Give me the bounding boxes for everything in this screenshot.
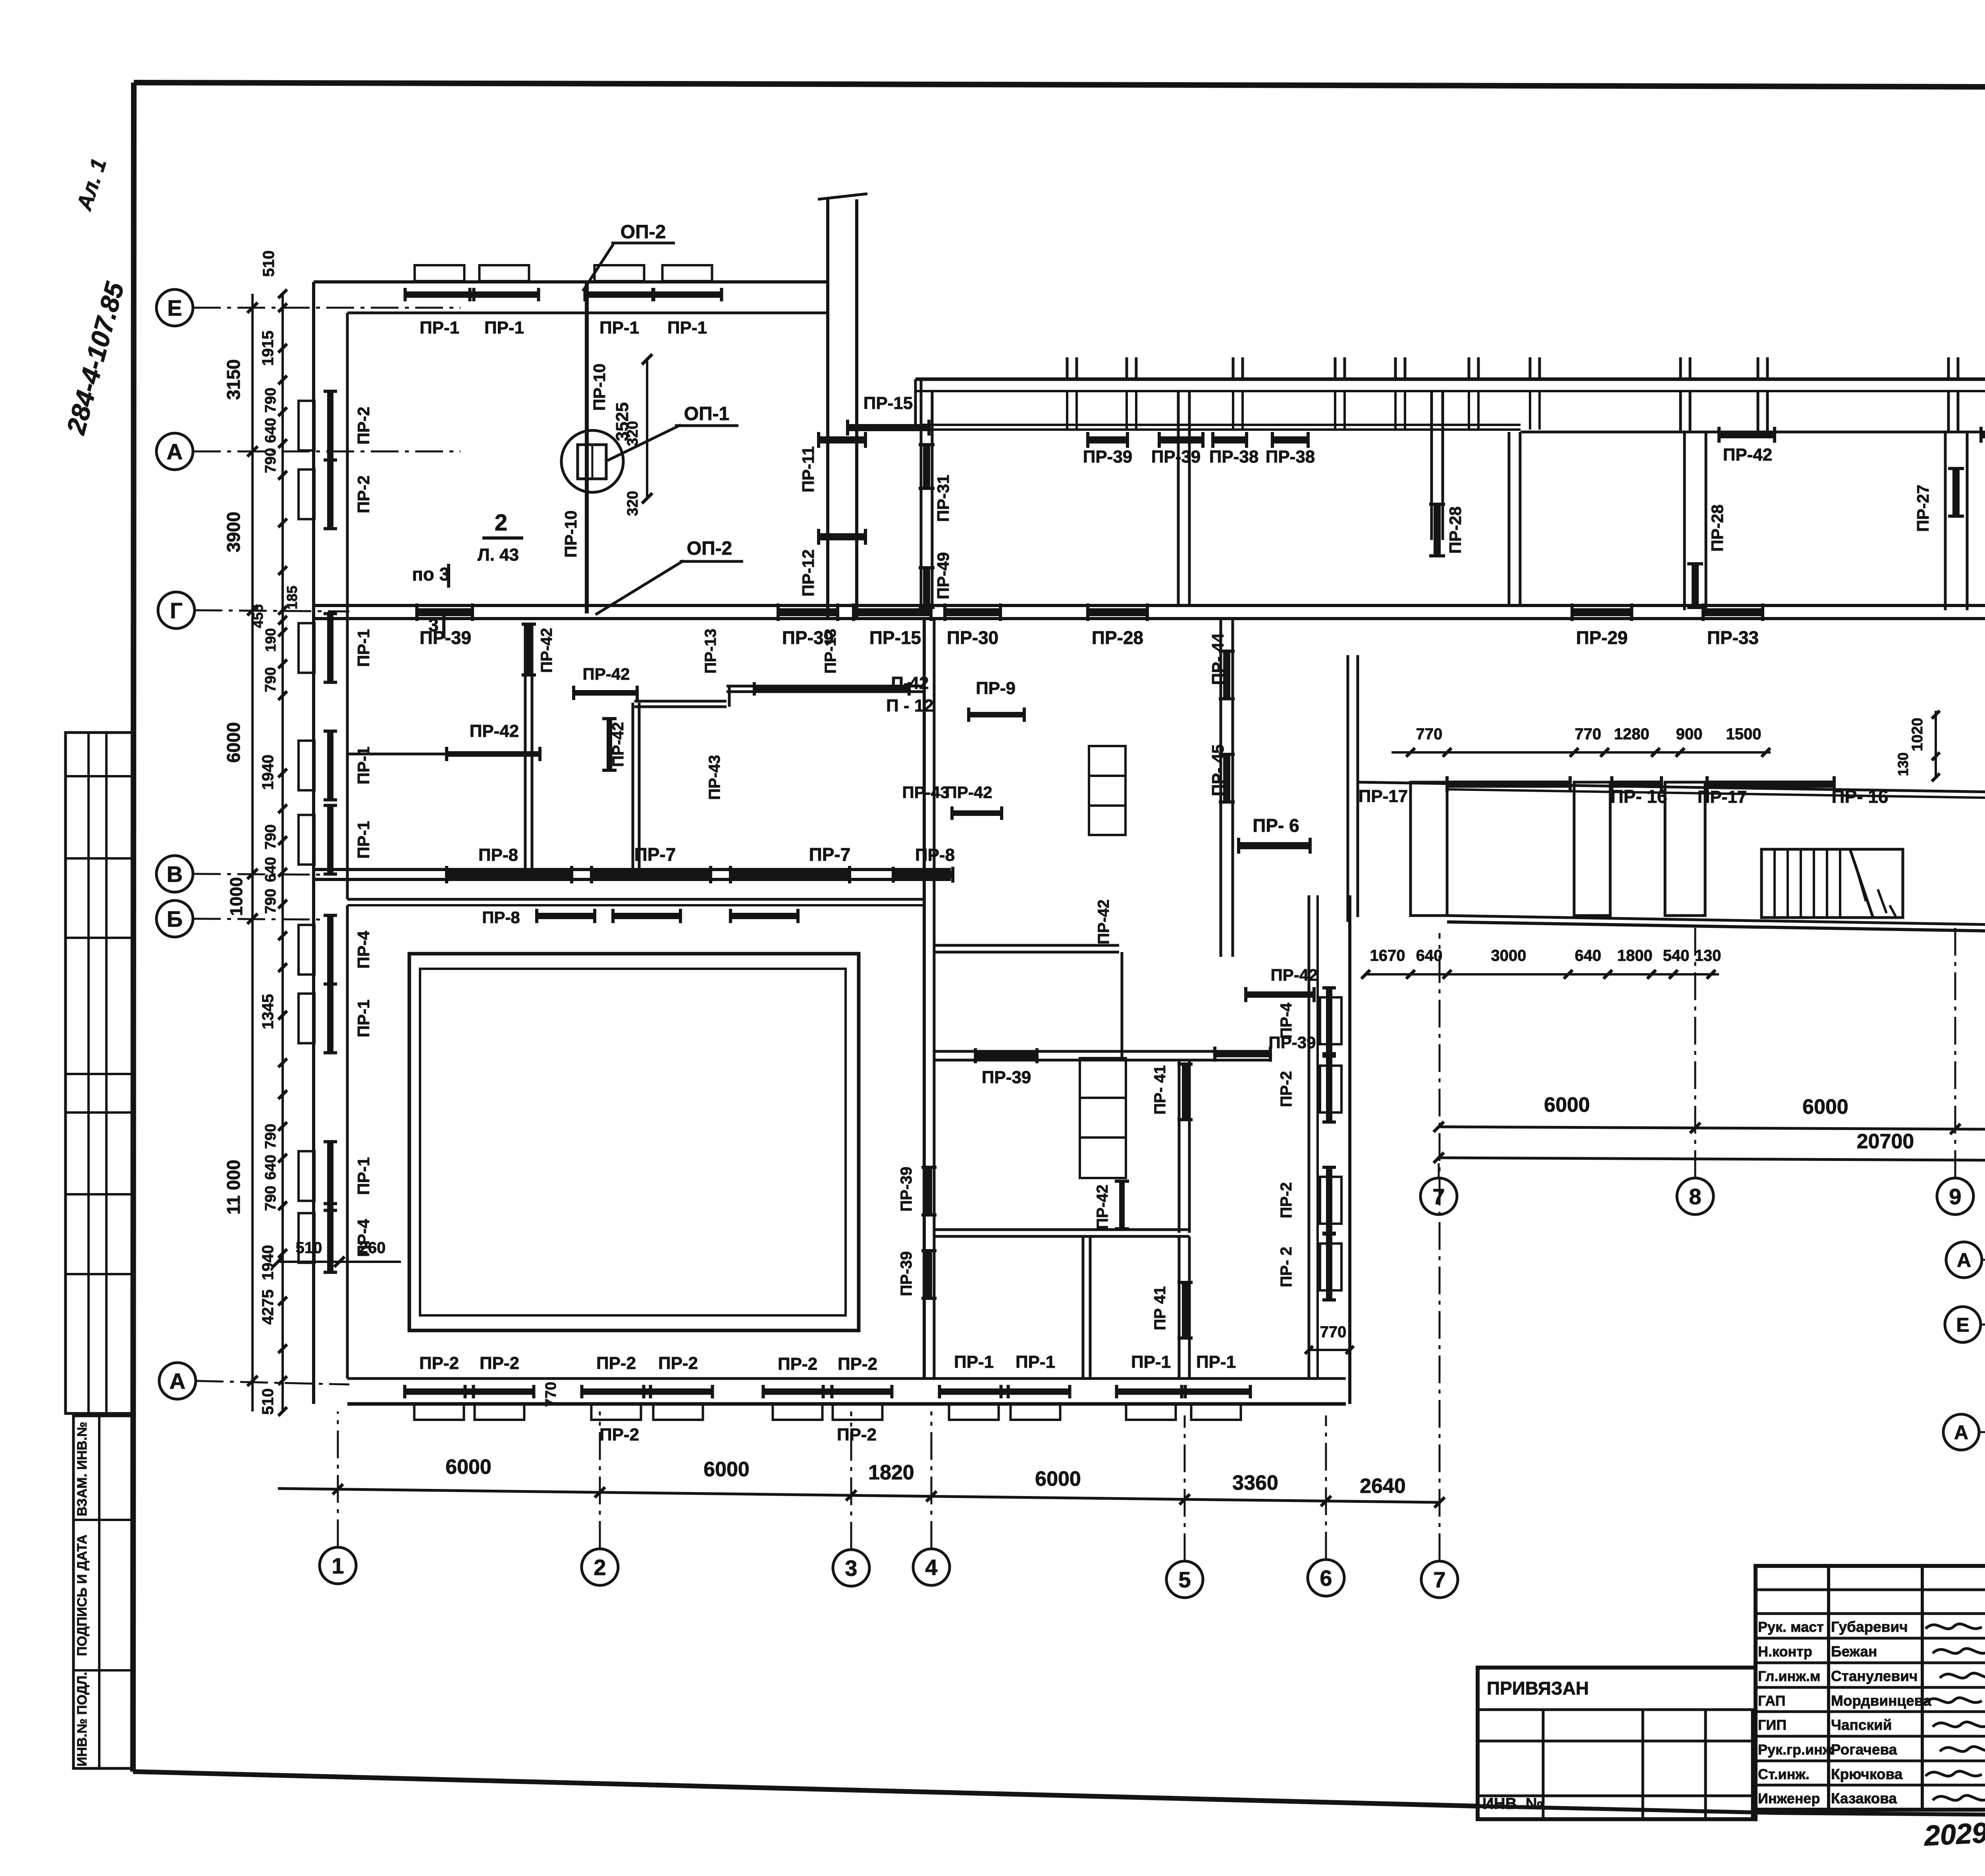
axis bubble 7 right	[1420, 1178, 1457, 1215]
lintel bar on B wall x1840	[730, 913, 798, 919]
svg-text:ПР-42: ПР-42	[609, 722, 627, 767]
svg-text:ПР-42: ПР-42	[945, 783, 992, 802]
window lintel PR-1 no1 top wall	[415, 265, 464, 281]
svg-text:ПР-1: ПР-1	[354, 1157, 373, 1195]
svg-text:ИНВ. №: ИНВ. №	[1482, 1795, 1543, 1812]
dimension chain 1670-130	[1361, 947, 1721, 979]
axis bubble 6 bottom	[1308, 1560, 1344, 1596]
window pier top wing x3712	[1469, 357, 1478, 430]
lintel bar on B wall x1544	[613, 913, 680, 919]
svg-text:1940: 1940	[259, 755, 277, 790]
svg-text:770: 770	[1320, 1323, 1347, 1341]
svg-text:900: 900	[1676, 725, 1703, 743]
svg-text:ПР-43: ПР-43	[902, 783, 950, 802]
key plan axis bubble A bottom	[1943, 1414, 1979, 1450]
axis bubble 1 bottom	[320, 1547, 356, 1584]
title signature row ГИП	[1758, 1717, 1892, 1733]
svg-text:790: 790	[262, 824, 279, 849]
svg-text:ПР- 16: ПР- 16	[1831, 786, 1888, 807]
svg-text:ПР-1: ПР-1	[667, 318, 707, 337]
axis bubble 4 bottom	[913, 1549, 950, 1585]
window lintel ПР-4 right wall y2571	[1320, 997, 1341, 1044]
title signature row Рук.гр.инж	[1758, 1741, 1897, 1758]
svg-text:ПР- 41: ПР- 41	[1151, 1065, 1169, 1114]
wall top wing outer lower line	[915, 390, 1985, 392]
lintel bar P-42 wide	[754, 686, 909, 692]
wall bottom facade inner	[347, 1377, 1346, 1380]
wall right-middle rooms top second	[1447, 789, 1985, 801]
lintel bar ПР-39 top wing x2962	[1159, 436, 1203, 443]
svg-text:640: 640	[1416, 947, 1443, 964]
svg-text:ПР-10: ПР-10	[590, 364, 609, 411]
window lintel ПР-2 bottom facade x1708	[653, 1404, 703, 1420]
leader label OP-2 top	[583, 222, 675, 291]
window pier top wing x3375	[1335, 357, 1345, 430]
wall top wing outer	[915, 378, 1985, 381]
svg-text:ПР-17: ПР-17	[1698, 787, 1747, 807]
wall partition wing x3815	[1509, 432, 1520, 605]
wall y2390 room	[934, 945, 1119, 952]
svg-text:ПР-2: ПР-2	[354, 475, 373, 513]
svg-text:ПР-10: ПР-10	[561, 511, 580, 558]
svg-text:Б: Б	[167, 906, 183, 931]
axis line 3 bottom	[850, 1411, 852, 1550]
window pier top wing x3866	[1530, 357, 1540, 430]
svg-text:ПР-13: ПР-13	[702, 629, 719, 673]
title signature row ГАП	[1758, 1693, 1931, 1709]
wall vertical x2983 lower	[1179, 1236, 1189, 1379]
svg-text:Чапский: Чапский	[1831, 1717, 1892, 1733]
wall stub top wing right x4440	[1758, 357, 1767, 432]
wall corridor G top line	[314, 604, 1985, 607]
key plan leader A bottom	[1979, 1431, 1985, 1433]
lintel bar PR-39 x3130	[1215, 1033, 1316, 1062]
lintel bar PR-27 partition	[1952, 469, 1960, 516]
svg-text:6000: 6000	[1802, 1095, 1848, 1118]
svg-text:320: 320	[624, 421, 641, 446]
key plan leader E	[1981, 1324, 1985, 1326]
window lintel ПР- 2 right wall y3191	[1320, 1244, 1341, 1290]
dimension 3525 vertical	[613, 354, 652, 503]
dimension 510 260 bottom left	[273, 1239, 401, 1267]
svg-text:1800: 1800	[1617, 947, 1653, 964]
wall stub top wing right x4920	[1948, 357, 1958, 432]
wall pier x3965	[1574, 782, 1610, 916]
dimension chain 770-1500	[1391, 725, 1771, 757]
svg-text:ПР-39: ПР-39	[1083, 447, 1133, 467]
svg-text:Бежан: Бежан	[1831, 1643, 1877, 1660]
wall corridor vertical right	[855, 199, 858, 619]
lintel bar PR-42 y2505	[1246, 966, 1318, 1002]
svg-text:640: 640	[1575, 947, 1601, 964]
window lintel ПР-1 bottom facade mid x3063	[1191, 1404, 1241, 1420]
svg-text:ПР- 16: ПР- 16	[1610, 786, 1667, 807]
svg-text:ПР-42: ПР-42	[1094, 1184, 1111, 1229]
svg-text:190: 190	[262, 628, 279, 652]
svg-text:ПРИВЯЗАН: ПРИВЯЗАН	[1487, 1678, 1589, 1699]
svg-text:1820: 1820	[868, 1461, 914, 1484]
svg-text:1345: 1345	[259, 994, 277, 1030]
wall lower-middle left inner	[933, 619, 936, 1379]
lintel bar PR-8 right	[893, 871, 953, 878]
svg-text:ПР-2: ПР-2	[419, 1353, 459, 1373]
wall shaft connector x2826	[1121, 952, 1124, 1058]
svg-text:790: 790	[262, 889, 279, 914]
title signature row Н.контр	[1758, 1643, 1877, 1660]
lintel bar PR-41 x2985 lower	[1151, 1282, 1193, 1338]
axis bubble E	[156, 289, 193, 326]
svg-text:8: 8	[1689, 1184, 1701, 1209]
window lintel ПР-2 right wall y3023	[1320, 1177, 1341, 1224]
axis line 7 right	[1438, 1163, 1440, 1178]
svg-text:1915: 1915	[259, 331, 277, 366]
lintel bar ПР-39 top wing x2790	[1088, 436, 1127, 443]
svg-text:А: А	[1957, 1249, 1971, 1271]
wall upper-left block top inner	[347, 312, 828, 314]
axis bubble 8 right	[1677, 1178, 1713, 1215]
wall pool left inner	[346, 905, 349, 1379]
wall shaft vertical x3090	[1221, 619, 1233, 957]
lintel bar PR-45 shaft	[1223, 754, 1230, 802]
svg-text:ГАП: ГАП	[1758, 1693, 1786, 1709]
svg-text:ПР-7: ПР-7	[809, 844, 851, 865]
axis bubble A upper	[156, 433, 193, 470]
svg-text:ПР-31: ПР-31	[934, 475, 952, 522]
svg-text:3360: 3360	[1232, 1471, 1278, 1494]
svg-text:11 000: 11 000	[223, 1160, 244, 1215]
svg-text:ПР-2: ПР-2	[599, 1425, 639, 1444]
lintel bar ПР-16 rooms top	[1707, 781, 1834, 788]
svg-text:2: 2	[495, 510, 507, 536]
svg-text:ПР- 2: ПР- 2	[1278, 1247, 1295, 1287]
lintel bar ПР-38 top wing x3250	[1272, 436, 1308, 443]
svg-text:ПР-9: ПР-9	[976, 679, 1016, 698]
wall axis B line	[347, 899, 924, 905]
wall right-middle rooms top	[1358, 782, 1985, 795]
lintel bar PR-42 room	[447, 721, 540, 761]
lintel bar on V wall x1840	[730, 871, 850, 879]
lintel bar PR-6	[1239, 815, 1310, 854]
bottom dimension line 1-7	[278, 1484, 1445, 1508]
axis line A upper	[193, 451, 461, 453]
title signature row Гл.инж.м	[1758, 1668, 1918, 1684]
wall step y1728	[727, 686, 924, 692]
svg-text:ГИП: ГИП	[1758, 1717, 1786, 1733]
dimension 770 label right wall	[1305, 1323, 1354, 1354]
wall right-middle bottom outer	[1447, 922, 1985, 937]
svg-text:ПР-2: ПР-2	[596, 1353, 636, 1373]
lintel bar PR-28 right partition	[1692, 564, 1699, 607]
svg-text:790: 790	[262, 448, 279, 473]
svg-text:ПР-2: ПР-2	[480, 1353, 519, 1373]
lintel bar PR-9	[969, 679, 1024, 722]
title signature row Ст.инж.	[1758, 1766, 1903, 1782]
svg-text:ПР-4: ПР-4	[1278, 1003, 1295, 1039]
svg-text:ПР-38: ПР-38	[1266, 447, 1315, 467]
svg-text:3150: 3150	[223, 359, 244, 400]
svg-text:ПР-15: ПР-15	[863, 393, 913, 413]
svg-text:790: 790	[262, 1124, 279, 1149]
axis line 7 bottom	[1439, 933, 1441, 1561]
window lintel ПР-1 left wall y1928	[299, 741, 314, 791]
svg-text:ПР-8: ПР-8	[482, 908, 520, 927]
wall vertical x2983 upper	[1179, 1060, 1189, 1233]
svg-text:6000: 6000	[703, 1458, 750, 1481]
wall pool left outer	[312, 901, 315, 1404]
svg-text:790: 790	[262, 388, 279, 413]
svg-text:Г: Г	[170, 598, 183, 623]
axis bubble 7 bottom	[1421, 1561, 1458, 1598]
svg-text:1940: 1940	[259, 1245, 277, 1280]
lintel bar ПР-29 corridor G	[1572, 608, 1632, 616]
svg-text:1280: 1280	[1614, 725, 1650, 743]
svg-text:ОП-1: ОП-1	[684, 403, 730, 424]
svg-text:ПР-1: ПР-1	[1131, 1352, 1171, 1372]
lintel bar on V wall x1125	[447, 871, 572, 879]
svg-text:1670: 1670	[1370, 947, 1405, 964]
svg-text:770: 770	[1575, 725, 1601, 743]
svg-text:ПР-30: ПР-30	[947, 627, 998, 648]
svg-text:ПР-42: ПР-42	[1723, 445, 1773, 465]
wall stub left of wing	[915, 379, 921, 431]
wall top wing inner right	[1521, 431, 1985, 434]
lintel bar ПР-17 rooms top	[1612, 781, 1661, 788]
window lintel ПР-1 pool left wall y2565	[299, 994, 314, 1043]
window lintel ПР-1 pool left wall y2962	[299, 1151, 314, 1201]
window lintel PR-1 no2 top wall	[480, 265, 529, 281]
axis bubble 5 bottom	[1166, 1561, 1203, 1598]
wall partition wing x4270	[1684, 432, 1706, 610]
svg-text:ПР-43: ПР-43	[706, 755, 723, 800]
svg-text:Казакова: Казакова	[1831, 1790, 1897, 1807]
svg-text:ПР-42: ПР-42	[1271, 966, 1318, 984]
svg-text:А: А	[170, 1369, 185, 1394]
lintel bar PR-12 corridor	[819, 533, 865, 540]
lintel bar PR-15 upper	[848, 424, 929, 431]
svg-text:510: 510	[260, 251, 278, 277]
window lintel ПР-4 pool left wall y3118	[299, 1213, 314, 1263]
svg-text:ПР- 6: ПР- 6	[1253, 815, 1299, 836]
lintel bar ПР-42 top wing right x4402	[1719, 431, 1775, 438]
svg-text:ПР 41: ПР 41	[1151, 1286, 1169, 1330]
svg-text:4275: 4275	[259, 1290, 277, 1325]
lintel bar ПР-43 top wing right x5060	[1981, 431, 1985, 438]
svg-text:ПР-39: ПР-39	[898, 1251, 915, 1296]
svg-text:ПР-39: ПР-39	[982, 1068, 1031, 1087]
svg-text:320: 320	[624, 491, 641, 516]
svg-text:1020: 1020	[1909, 718, 1926, 752]
section mark po 3	[412, 564, 449, 588]
key plan axis bubble E	[1945, 1307, 1981, 1342]
lintel bar PR-28 wing partition	[1434, 504, 1441, 556]
section mark 3	[428, 615, 444, 638]
lintel bar PR-39 y2659	[975, 1048, 1037, 1087]
svg-text:770: 770	[1416, 725, 1443, 743]
window lintel ПР-1 bottom facade mid x2899	[1126, 1404, 1176, 1420]
detail line PR-10 vertical	[585, 283, 589, 613]
svg-text:ПР-42: ПР-42	[583, 665, 630, 683]
svg-text:ПР-8: ПР-8	[478, 845, 518, 865]
wall left facade below G outer	[312, 619, 315, 901]
svg-text:ПР-42: ПР-42	[1095, 899, 1112, 944]
lintel bar PR-41 x2985 upper	[1151, 1064, 1193, 1120]
section mark 2 L.43	[478, 510, 523, 565]
lintel bar ПР-30 corridor G	[945, 608, 1000, 616]
wall upper-left block left outer	[312, 282, 315, 901]
axis line 1 bottom	[337, 1411, 339, 1547]
svg-text:ПР-12: ПР-12	[799, 549, 817, 597]
svg-text:ПР-2: ПР-2	[838, 1354, 877, 1374]
lintel bar on B wall x1352	[537, 913, 595, 919]
axis line A lower	[196, 1381, 349, 1384]
wall partition wing x3620	[1432, 391, 1443, 540]
window lintel ПР-1 left wall y1632	[299, 623, 314, 673]
svg-text:ПР-7: ПР-7	[634, 844, 676, 865]
svg-text:ПР-4: ПР-4	[354, 931, 373, 969]
pool inner rectangle	[420, 969, 846, 1315]
window lintel ПР-2 bottom facade x1552	[592, 1404, 641, 1420]
lintel bar PR-42 vertical x1535	[602, 719, 627, 770]
key plan axis bubble A top	[1946, 1242, 1982, 1278]
duct shaft lower	[1080, 1058, 1126, 1178]
svg-text:ПР-39: ПР-39	[420, 627, 471, 648]
key plan leader A top	[1982, 1259, 1985, 1261]
svg-text:Е: Е	[1956, 1314, 1969, 1336]
svg-text:6000: 6000	[223, 722, 244, 763]
wall upper-left block top outer	[314, 280, 828, 283]
svg-text:ПР-39: ПР-39	[1151, 447, 1201, 467]
wall y2659 room	[934, 1051, 1270, 1060]
svg-text:Губаревич: Губаревич	[1831, 1619, 1908, 1635]
svg-text:7: 7	[1433, 1567, 1445, 1592]
title signatures scribbles	[1925, 1624, 1985, 1800]
wall step vertical x1837	[728, 686, 731, 707]
stair flight	[1761, 849, 1903, 918]
axis line V	[193, 874, 322, 875]
wall partition wing x2982	[1178, 391, 1189, 605]
axis line 5 bottom	[1184, 1415, 1186, 1561]
svg-text:640: 640	[262, 1155, 279, 1180]
window lintel ПР-2 bottom facade x1106	[414, 1404, 464, 1420]
lintel bar PR-11 corridor	[819, 436, 865, 443]
lintel bar PR-43 left wall top	[902, 783, 1002, 820]
svg-text:Станулевич: Станулевич	[1831, 1668, 1918, 1684]
svg-text:ПР-39: ПР-39	[898, 1166, 915, 1211]
svg-text:1000: 1000	[227, 877, 246, 916]
svg-text:ПР-2: ПР-2	[354, 407, 373, 445]
window lintel ПР-2 bottom facade x1258	[475, 1404, 524, 1420]
svg-text:6: 6	[1320, 1566, 1332, 1591]
svg-text:3900: 3900	[223, 512, 244, 552]
window lintel ПР-1 bottom facade mid x2453	[949, 1404, 999, 1420]
svg-text:540: 540	[1663, 947, 1690, 964]
wall vertical x1332	[525, 623, 532, 871]
svg-text:Ст.инж.: Ст.инж.	[1758, 1766, 1810, 1782]
svg-text:510: 510	[259, 1388, 277, 1415]
svg-text:ПР-2: ПР-2	[1278, 1182, 1295, 1219]
wall right-middle left vertical	[1348, 655, 1358, 922]
axis line 9 right	[1954, 925, 1956, 1178]
svg-text:П - 12: П - 12	[886, 696, 934, 715]
window pier top wing x2850	[1127, 357, 1136, 430]
wall step y1766	[634, 701, 727, 707]
wall vertical x2737 lower	[1083, 1236, 1090, 1379]
svg-text:9: 9	[1949, 1184, 1961, 1209]
svg-text:ОП-2: ОП-2	[621, 222, 666, 243]
svg-text:ПР-2: ПР-2	[658, 1353, 698, 1373]
wall corridor vertical left	[826, 199, 829, 619]
svg-text:2: 2	[594, 1555, 606, 1580]
wall axis V top	[314, 868, 951, 871]
lintel bar PR-42 x1527	[574, 665, 637, 700]
lintel bar ПР-39 corridor G	[778, 608, 838, 616]
axis line 2 bottom	[599, 1411, 601, 1549]
svg-text:ПР-29: ПР-29	[1576, 627, 1628, 648]
svg-text:3000: 3000	[1491, 947, 1526, 964]
svg-text:1500: 1500	[1726, 725, 1761, 743]
svg-text:ПР-1: ПР-1	[1196, 1352, 1236, 1372]
lintel bar ПР-38 top wing x3108	[1213, 436, 1247, 443]
svg-text:ПР-28: ПР-28	[1446, 507, 1465, 554]
lintel bar ПР-39 corridor G	[417, 608, 472, 616]
svg-text:2640: 2640	[1360, 1475, 1406, 1498]
wall corridor G bottom line	[314, 617, 1985, 620]
lintel bar PR-42 vertical x2826	[1094, 1181, 1129, 1230]
axis line 6 bottom	[1325, 1415, 1327, 1560]
leader label OP-1	[607, 403, 738, 461]
svg-text:ПР-42: ПР-42	[538, 628, 555, 673]
axis line E	[193, 307, 461, 309]
axis line G	[195, 610, 349, 611]
svg-text:ИНВ.№ ПОДЛ.: ИНВ.№ ПОДЛ.	[75, 1672, 90, 1766]
wall right-middle bottom inner	[1447, 916, 1985, 931]
svg-text:А: А	[1954, 1421, 1968, 1444]
lintel bar PR-39 left wall lower	[898, 1251, 937, 1298]
svg-text:ПР-1: ПР-1	[599, 318, 639, 337]
svg-text:5: 5	[1178, 1567, 1191, 1592]
svg-text:3: 3	[845, 1556, 857, 1581]
svg-text:ПР-38: ПР-38	[1209, 447, 1259, 467]
svg-text:ПР-1: ПР-1	[354, 999, 373, 1037]
lintel bar ПР-28 corridor G	[1088, 608, 1147, 616]
window pier top wing x3118	[1233, 357, 1243, 430]
axis bubble 2 bottom	[582, 1549, 618, 1585]
svg-text:790: 790	[262, 667, 279, 692]
svg-text:4: 4	[925, 1555, 937, 1580]
wall y3105	[934, 1230, 1189, 1236]
left stamp lower strip	[73, 1416, 134, 1768]
window lintel ПР-4 pool left wall y2392	[299, 925, 314, 975]
svg-text:Е: Е	[167, 295, 182, 320]
svg-text:7: 7	[1432, 1184, 1445, 1209]
svg-text:ВЗАМ. ИНВ.№: ВЗАМ. ИНВ.№	[75, 1422, 90, 1516]
lintel bar PR-39 left wall upper	[898, 1166, 937, 1215]
svg-text:Рогачева: Рогачева	[1831, 1741, 1897, 1758]
window pier top wing x2700	[1067, 357, 1077, 430]
svg-text:ПР-28: ПР-28	[1708, 505, 1727, 552]
svg-text:20700: 20700	[1857, 1130, 1914, 1153]
wall pier x3553	[1411, 782, 1447, 916]
svg-text:ПР-1: ПР-1	[354, 746, 373, 785]
svg-text:6000: 6000	[1544, 1093, 1590, 1116]
svg-text:Инженер: Инженер	[1758, 1790, 1820, 1807]
svg-text:1: 1	[331, 1553, 344, 1578]
svg-text:6000: 6000	[1035, 1467, 1081, 1490]
left stamp upper table	[66, 733, 132, 1413]
svg-text:790: 790	[262, 1186, 279, 1211]
svg-text:6000: 6000	[445, 1456, 491, 1479]
svg-text:130: 130	[1895, 752, 1911, 776]
